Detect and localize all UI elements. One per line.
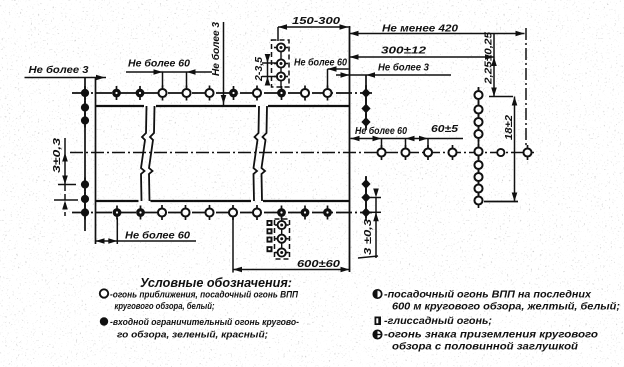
- lamp top row end (filled diamond): [361, 85, 370, 101]
- arrows 600±60: [233, 267, 242, 273]
- lamp top row 4: [158, 86, 166, 101]
- boxed lamp B3: [275, 248, 289, 256]
- limit light R2: [361, 114, 370, 130]
- arrows nb60 bottom: [96, 238, 105, 244]
- lamp bottom row 11 (dark ring): [323, 206, 332, 220]
- lamp top row 7 (dark ring): [229, 86, 238, 100]
- bottom row of lights line (dash-dot): [72, 212, 372, 214]
- lamp top row 11: [323, 86, 331, 101]
- entry light L3: [81, 178, 89, 192]
- approach crossbar column line: [478, 87, 480, 202]
- legend symbol filled circle: [100, 317, 108, 325]
- lamp top row 9 (dark ring): [277, 86, 286, 100]
- lamp top row 6: [205, 86, 213, 101]
- approach light 3: [424, 145, 432, 160]
- dim "Не более 60" top-left line: [126, 71, 212, 73]
- glide light 4: [267, 246, 273, 252]
- crossbar light 1: [474, 88, 482, 103]
- dim "150-300" line: [278, 26, 349, 28]
- lamp bottom row 3 (dark ring): [136, 206, 145, 220]
- dim "Не менее 420" line: [350, 33, 525, 35]
- arrows top-left 60: [154, 69, 163, 75]
- right lights column line lower: [365, 177, 367, 218]
- left entry lights column line: [84, 77, 86, 231]
- lamp bottom row 7: [229, 205, 237, 220]
- lamp bottom row 4: [158, 205, 166, 220]
- arrows 3±0,3 left: [62, 153, 68, 162]
- entry light L1: [81, 101, 89, 115]
- arrows 3±0,3 right: [373, 189, 379, 198]
- approach light far diamond: [523, 145, 531, 160]
- lamp bottom row 5: [181, 205, 189, 220]
- dashed enclosure top: [272, 40, 290, 87]
- crossbar light 5 (on centreline): [474, 144, 482, 159]
- boxed lamp T3: [274, 72, 288, 80]
- dim "600±60" line: [233, 269, 350, 271]
- break line 2: [254, 106, 260, 201]
- dim "Не более 3" #2 line: [336, 74, 451, 76]
- dim "Не более 3" top-left leader: [25, 77, 107, 79]
- runway left edge: [95, 78, 97, 245]
- crossbar light 8: [474, 181, 482, 196]
- lamp bottom row 6: [205, 205, 213, 220]
- lamp bottom row 2 (dark ring): [113, 206, 122, 220]
- runway outline top edge: [96, 105, 350, 107]
- approach light 2: [401, 145, 409, 160]
- entry light L4: [81, 192, 89, 206]
- lamp top row 3 (dark ring): [136, 86, 145, 100]
- runway outline bottom edge: [96, 200, 350, 202]
- limit light R4: [361, 190, 370, 206]
- dim "Не более 60" #2 line: [328, 68, 349, 70]
- lamp top row 10: [301, 86, 309, 101]
- dim "3±0,3" right line: [375, 198, 377, 259]
- crossbar bottom tick: [484, 201, 518, 203]
- dashed enclosure bottom: [275, 219, 290, 259]
- dim "Не более 60" bottom line: [96, 240, 197, 242]
- lamp bottom row 1 (entry, filled): [81, 206, 89, 220]
- crossbar light 9: [474, 193, 482, 208]
- lamp bottom row end (filled diamond): [361, 205, 370, 221]
- arrows 150-300: [278, 24, 287, 30]
- legend symbol open circle: [100, 289, 108, 297]
- crossbar light 7: [474, 170, 482, 185]
- arrows 2,25: [491, 57, 497, 66]
- right lights column line upper: [365, 75, 367, 128]
- arrow nb60 #2: [328, 66, 337, 72]
- approach light 5 (small): [497, 149, 504, 156]
- connector line from box to row: [280, 44, 282, 88]
- arrow tip TL leader: [96, 75, 105, 81]
- boxed lamp T2: [274, 59, 288, 67]
- connector line from row into box: [281, 217, 283, 254]
- crossbar light 2: [474, 102, 482, 117]
- legend symbol glide rect: [375, 317, 382, 326]
- legend symbol half circle: [373, 290, 381, 298]
- lamp bottom row 10 (dark ring): [301, 206, 310, 220]
- boxed lamp B1: [275, 221, 289, 229]
- break line 1: [141, 106, 147, 201]
- crossbar light 4: [474, 127, 482, 142]
- limit light R1: [361, 101, 370, 117]
- runway right threshold line: [349, 26, 351, 272]
- arrows 2-3,5: [265, 54, 271, 63]
- lamp top row 5: [182, 86, 190, 101]
- lamp bottom row 9 (dark ring): [277, 206, 286, 220]
- arrows 18±2: [512, 97, 518, 106]
- runway centerline (dash-dot): [70, 152, 534, 154]
- arrows right 60 dims: [351, 136, 360, 142]
- dim "300±12" line: [350, 56, 495, 58]
- approach light 4: [448, 145, 456, 160]
- glide light 3: [267, 237, 273, 243]
- lamp top row 8: [253, 86, 261, 101]
- arrows 300±12: [350, 54, 359, 60]
- dim "2-3,5" ticks and line: [262, 62, 278, 64]
- lamp top row 2 (dark ring): [112, 86, 121, 100]
- arrows nb3 #2: [341, 72, 350, 78]
- arrows 420: [350, 31, 359, 37]
- glide light 1: [267, 220, 273, 226]
- lamp bottom row 8: [253, 205, 261, 220]
- top row of lights line (dash-dot): [72, 92, 372, 94]
- arrow vertical nb3: [221, 95, 227, 104]
- crossbar light 6: [474, 158, 482, 173]
- lamp top row 1 (entry, filled): [81, 86, 89, 100]
- dim vertical "Не более 3" line: [223, 22, 225, 105]
- dim "Не более 60"/"60±5" right line: [351, 138, 464, 140]
- dim tick between threshold lamps (left, lower): [54, 199, 78, 201]
- far vertical dash-dot line: [525, 28, 527, 148]
- entry light L2: [81, 114, 89, 128]
- dim "18±2" line: [514, 97, 516, 202]
- approach light 1: [377, 145, 385, 160]
- dim "2,25±0,25" line: [493, 34, 495, 97]
- glide light 2: [267, 228, 273, 234]
- dim "3±0,3" left line: [64, 138, 66, 185]
- limit light R3: [361, 176, 370, 192]
- crossbar light 3: [474, 115, 482, 130]
- boxed lamp T1: [274, 43, 288, 51]
- legend symbol circle dot: [373, 330, 381, 338]
- boxed lamp B2: [275, 235, 289, 243]
